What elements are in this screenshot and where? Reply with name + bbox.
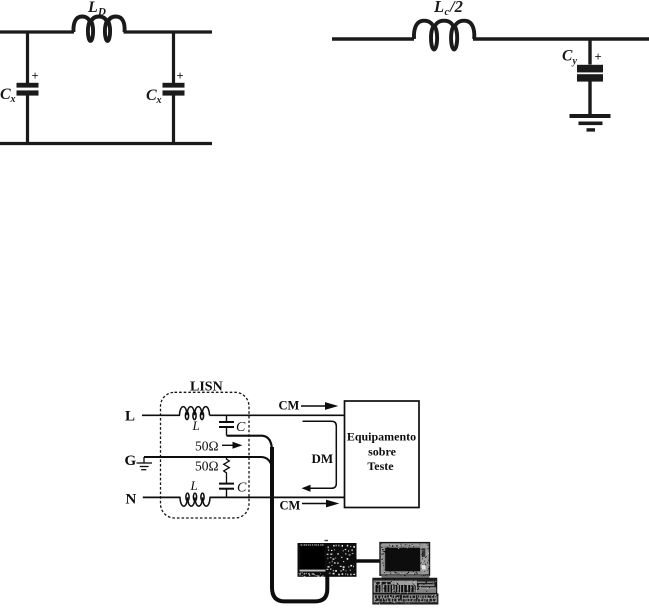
scan speckle noise dark [374,543,439,604]
svg-text:DM: DM [312,451,334,466]
computer monitor [380,543,430,576]
svg-text:+: + [32,69,39,83]
svg-text:G: G [125,453,137,469]
arrow DM (points left) [302,485,311,492]
computer monitor base [382,575,430,578]
wire right circuit right segment [473,37,649,40]
svg-text:c: c [445,7,450,18]
svg-text:CM: CM [280,499,301,513]
svg-text:L: L [190,478,198,493]
svg-text:L: L [125,409,135,425]
wire L line left [142,414,180,416]
label Cy [562,48,578,68]
svg-text:C: C [146,87,157,104]
arrow 50 ohm [222,443,241,449]
cable analyzer to computer [357,559,381,563]
svg-text:Equipamento: Equipamento [347,430,416,444]
svg-text:+: + [177,69,184,83]
svg-text:Teste: Teste [367,459,394,473]
svg-text:50Ω: 50Ω [195,439,219,454]
svg-text:50Ω: 50Ω [195,459,219,474]
svg-text:L: L [192,418,200,433]
computer keyboard [373,594,438,604]
wire from upper C curving into cable [227,436,273,450]
wire N line left [143,496,181,498]
svg-text:CM: CM [279,399,300,413]
wire right branch [172,32,175,83]
svg-text:sobre: sobre [368,445,396,459]
scan speckle noise light [374,544,436,604]
spectrum analyzer [298,540,357,577]
inductor LD [73,17,124,41]
label Lc/2 [433,0,463,18]
svg-text:/2: /2 [449,0,463,16]
DM loop wire [303,421,337,488]
arrow CM top [301,403,337,409]
svg-text:y: y [572,56,578,67]
wire top-left bottom rail [0,142,212,145]
wire top-left top rail left segment [0,30,74,33]
label Cx left [0,86,16,105]
inductor L lower [180,493,210,506]
capacitor C upper [219,415,234,435]
capacitor Cx right [163,83,185,96]
EUT box (Equipamento sobre Teste) [345,401,420,508]
arrow CM bottom [302,500,338,506]
svg-text:L: L [87,0,98,16]
capacitor Cx left [17,83,39,96]
capacitor Cy [577,65,603,82]
svg-text:L: L [433,0,444,16]
ground symbol G [137,457,153,470]
thick coax cable LISN to analyzer [272,447,327,601]
wire L line right [210,414,345,416]
svg-text:C: C [236,420,246,435]
svg-text:x: x [156,95,162,106]
wire Cy stub bottom [588,82,591,115]
wire top-left top rail right segment [124,30,213,33]
svg-text:+: + [595,50,602,64]
LISN dashed box [161,392,250,518]
label Cx right [146,87,162,106]
wire Cy stub top [588,39,591,65]
wire G line curving into cable [144,457,272,470]
computer system unit [373,578,437,593]
ground symbol right circuit [570,114,611,132]
capacitor C lower [219,484,234,498]
wire right circuit left segment [332,37,414,40]
resistor 50 ohm [224,457,230,483]
svg-text:D: D [97,6,106,18]
svg-text:C: C [562,48,573,65]
wire N line right [210,496,345,498]
inductor Lc/2 [414,21,474,50]
svg-text:C: C [237,481,247,496]
svg-text:C: C [0,86,11,103]
svg-text:N: N [126,492,137,508]
wire left branch [26,32,29,83]
inductor L upper [180,407,210,420]
label LD [87,0,106,18]
svg-text:x: x [10,94,16,105]
